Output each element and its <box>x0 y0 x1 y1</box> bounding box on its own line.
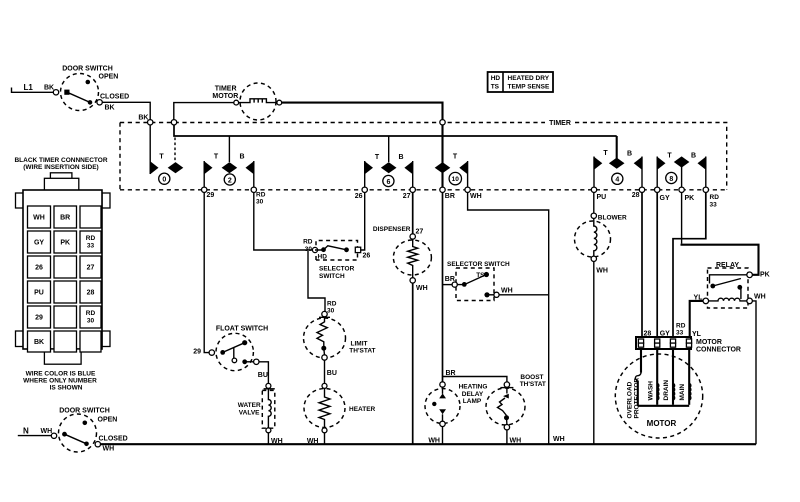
svg-text:PK: PK <box>685 195 695 202</box>
note wire color is blue <box>23 371 97 392</box>
svg-text:SWITCH: SWITCH <box>319 273 345 280</box>
motor connector <box>636 337 741 354</box>
wire 28 from timer to motor connector <box>641 193 643 338</box>
svg-text:N: N <box>23 427 29 436</box>
terminal 26 <box>355 187 368 200</box>
svg-text:BR: BR <box>446 370 456 377</box>
wire YL relay to motor connector <box>690 301 703 337</box>
terminal 27 <box>403 187 416 200</box>
motor drain winding <box>663 349 675 405</box>
svg-text:29: 29 <box>193 349 201 356</box>
legend box HD/TS <box>488 72 553 92</box>
svg-text:YL: YL <box>692 331 702 338</box>
svg-text:6: 6 <box>386 179 390 186</box>
connector cell RD 30 <box>80 306 101 328</box>
wire lamp to neutral bus <box>442 427 444 445</box>
svg-text:BLOWER: BLOWER <box>598 215 627 222</box>
wire boost thermostat to neutral bus <box>506 430 508 444</box>
motor wash winding <box>647 349 659 405</box>
svg-text:WH: WH <box>553 436 565 443</box>
limit thermostat <box>304 311 376 360</box>
wire PK from timer to relay <box>681 193 683 244</box>
svg-text:WH: WH <box>596 268 608 275</box>
terminal PU <box>591 187 606 201</box>
connector cell 27 <box>80 256 101 278</box>
label RD 33 (motor connector) <box>676 323 686 337</box>
relay <box>703 262 752 308</box>
connector cell 29 <box>28 306 51 328</box>
svg-text:TIMER: TIMER <box>549 120 571 127</box>
svg-text:TS: TS <box>491 84 500 91</box>
connector cell r4c2 <box>54 281 77 303</box>
wire RD30 from timer to selector switch <box>254 193 313 251</box>
timer cam switch 0 <box>150 125 183 184</box>
svg-text:27: 27 <box>403 193 411 200</box>
connector cell r1c3 <box>80 206 101 228</box>
wire PU from timer to blower <box>593 193 595 214</box>
timer box (dashed outline) <box>120 123 727 190</box>
svg-text:BR: BR <box>60 215 70 222</box>
wire 29 from timer to float switch <box>204 193 209 353</box>
black timer connector (wire insertion side) <box>14 157 110 364</box>
water valve solenoid <box>238 383 275 432</box>
wire timer motor to cam switch 10 feed <box>282 103 443 136</box>
svg-text:29: 29 <box>207 192 215 199</box>
svg-text:TEMP SENSE: TEMP SENSE <box>508 84 550 91</box>
svg-text:30: 30 <box>87 318 95 325</box>
svg-text:B: B <box>691 153 696 160</box>
svg-text:33: 33 <box>676 330 684 337</box>
wire BR bus from timer <box>442 193 444 383</box>
terminal PK <box>679 187 694 202</box>
wire timer terminal to timer motor <box>174 103 234 121</box>
svg-text:DISPENSER: DISPENSER <box>373 226 411 233</box>
wire 26 from timer to selector <box>361 193 365 251</box>
svg-text:RD: RD <box>86 235 96 242</box>
wire dispenser to neutral bus <box>412 283 414 444</box>
svg-text:8: 8 <box>669 176 673 183</box>
svg-text:29: 29 <box>35 315 43 322</box>
svg-text:OPEN: OPEN <box>99 74 119 81</box>
svg-text:RD: RD <box>303 239 313 246</box>
svg-text:MOTOR: MOTOR <box>647 419 677 428</box>
svg-text:GY: GY <box>34 240 44 247</box>
svg-text:DELAY: DELAY <box>462 391 484 398</box>
svg-text:33: 33 <box>710 202 718 209</box>
wire WH from timer to neutral bus <box>468 193 549 445</box>
svg-text:DRAIN: DRAIN <box>663 380 670 401</box>
connector cell r6c3 <box>80 331 101 352</box>
terminal 29 <box>202 187 215 199</box>
svg-text:T: T <box>603 150 608 157</box>
svg-text:BR: BR <box>445 193 455 200</box>
wire RD33 from timer to motor connector <box>673 193 706 338</box>
connector cell RD 33 <box>80 231 101 253</box>
connector cell PU <box>28 281 51 303</box>
svg-text:RD: RD <box>710 194 720 201</box>
svg-text:30: 30 <box>327 308 335 315</box>
svg-text:26: 26 <box>35 265 43 272</box>
label RD 30 (limit thermostat) <box>327 301 337 315</box>
svg-text:T: T <box>214 154 219 161</box>
svg-text:BU: BU <box>327 370 337 377</box>
svg-text:HEATING: HEATING <box>459 384 488 391</box>
terminal 28 <box>632 187 645 199</box>
svg-text:BOOST: BOOST <box>520 374 543 381</box>
blower <box>575 213 627 261</box>
svg-text:TH'STAT: TH'STAT <box>520 381 546 388</box>
svg-text:WH: WH <box>470 193 482 200</box>
svg-text:PU: PU <box>597 194 607 201</box>
svg-text:FLOAT SWITCH: FLOAT SWITCH <box>216 326 268 333</box>
svg-text:BK: BK <box>105 105 115 112</box>
timer cam switch 8 <box>657 153 706 190</box>
svg-text:GY: GY <box>660 195 670 202</box>
wire BR junction to boost thermostat <box>443 377 507 383</box>
svg-text:WH: WH <box>754 294 766 301</box>
wire GY from timer to motor connector <box>656 193 658 338</box>
connector cell r5c2 <box>54 306 77 328</box>
svg-text:PROTECTOR: PROTECTOR <box>633 378 640 419</box>
heating delay lamp <box>425 382 487 427</box>
node N <box>18 427 51 436</box>
selector switch (HD contact) <box>312 241 360 281</box>
connector cell WH <box>28 206 51 228</box>
svg-text:SELECTOR: SELECTOR <box>319 266 355 273</box>
float switch FS <box>209 326 268 371</box>
svg-text:L1: L1 <box>24 83 34 92</box>
connector cell r3c2 <box>54 256 77 278</box>
neutral bus wire <box>101 443 757 445</box>
wire heater to neutral bus <box>324 433 326 444</box>
svg-text:CLOSED: CLOSED <box>100 94 129 101</box>
timer cam switch 4 <box>594 136 642 190</box>
svg-text:TH'STAT: TH'STAT <box>349 348 375 355</box>
svg-text:BK: BK <box>44 85 54 92</box>
svg-text:BLACK TIMER CONNNECTOR: BLACK TIMER CONNNECTOR <box>14 157 107 164</box>
wire 27 from timer to dispenser <box>412 193 414 235</box>
svg-text:BK: BK <box>34 339 44 346</box>
svg-text:HD: HD <box>491 75 501 82</box>
wire selector TS to WH neutral drop <box>499 294 549 296</box>
svg-text:RD: RD <box>86 310 96 317</box>
wire blower to neutral bus <box>593 262 595 445</box>
svg-text:WH: WH <box>416 285 428 292</box>
svg-text:(WIRE INSERTION SIDE): (WIRE INSERTION SIDE) <box>23 164 98 171</box>
terminal WH <box>465 187 482 200</box>
svg-text:27: 27 <box>87 265 95 272</box>
svg-text:TS: TS <box>476 272 485 279</box>
connector cell 28 <box>80 281 101 303</box>
svg-text:TIMER: TIMER <box>215 86 237 93</box>
svg-text:B: B <box>398 154 403 161</box>
svg-text:OPEN: OPEN <box>98 417 118 424</box>
svg-text:28: 28 <box>632 192 640 199</box>
heater <box>304 383 376 432</box>
connector cell BR <box>54 206 77 228</box>
wire BK from door switch to timer terminal <box>102 102 150 121</box>
terminal timer-motor on timer top edge <box>171 120 176 125</box>
svg-text:LAMP: LAMP <box>463 398 482 405</box>
node L1 <box>12 83 54 93</box>
timer motor TM <box>212 83 281 120</box>
connector cell BK <box>28 331 51 352</box>
svg-text:RD: RD <box>676 323 686 330</box>
svg-text:26: 26 <box>355 193 363 200</box>
svg-text:WIRE COLOR IS BLUE: WIRE COLOR IS BLUE <box>26 371 96 378</box>
motor <box>615 354 702 438</box>
svg-text:BK: BK <box>138 115 148 122</box>
terminal BK on timer top edge <box>148 120 153 125</box>
svg-text:HD: HD <box>318 254 328 261</box>
svg-text:WH: WH <box>103 446 115 453</box>
svg-text:T: T <box>667 153 672 160</box>
svg-text:RD: RD <box>327 301 337 308</box>
svg-text:WATER: WATER <box>238 402 261 409</box>
svg-text:PU: PU <box>34 290 44 297</box>
dispenser <box>393 234 431 283</box>
label RD 30 (selector) <box>303 239 313 254</box>
svg-text:2: 2 <box>228 177 232 184</box>
svg-text:WH: WH <box>41 428 53 435</box>
wire WH relay to neutral bus <box>752 301 756 444</box>
svg-text:DOOR SWITCH: DOOR SWITCH <box>62 66 113 73</box>
wire BR stub to selector TS <box>443 284 453 286</box>
boost thermostat <box>486 374 546 430</box>
svg-text:RELAY: RELAY <box>716 262 739 269</box>
svg-text:SELECTOR SWITCH: SELECTOR SWITCH <box>447 261 510 268</box>
svg-text:0: 0 <box>162 177 166 184</box>
svg-text:10: 10 <box>452 176 460 183</box>
connector cell PK <box>54 231 77 253</box>
wire water valve to neutral bus <box>267 433 269 444</box>
svg-text:T: T <box>159 154 164 161</box>
connector cell r6c2 <box>54 331 77 352</box>
svg-text:WH: WH <box>501 287 513 294</box>
svg-text:IS SHOWN: IS SHOWN <box>50 385 83 392</box>
svg-text:28: 28 <box>87 290 95 297</box>
svg-text:LIMIT: LIMIT <box>351 341 368 348</box>
svg-text:BU: BU <box>258 372 268 379</box>
motor overload protector <box>626 349 641 419</box>
terminal GY <box>655 187 670 202</box>
svg-text:WHERE ONLY NUMBER: WHERE ONLY NUMBER <box>23 378 97 385</box>
door switch DS2 (lower, neutral side) <box>51 408 127 453</box>
connector cell 26 <box>28 256 51 278</box>
svg-text:CLOSED: CLOSED <box>99 436 128 443</box>
svg-text:MAIN: MAIN <box>679 384 686 401</box>
terminal BR <box>440 187 455 200</box>
svg-text:33: 33 <box>87 243 95 250</box>
timer cam switch 2 <box>204 136 254 190</box>
svg-text:4: 4 <box>615 177 619 184</box>
svg-text:WASH: WASH <box>647 381 654 401</box>
svg-text:26: 26 <box>363 253 371 260</box>
svg-text:VALVE: VALVE <box>239 410 260 417</box>
timer common bus <box>174 125 617 136</box>
svg-text:OVERLOAD: OVERLOAD <box>626 381 633 418</box>
svg-text:T: T <box>375 154 380 161</box>
svg-text:CONNECTOR: CONNECTOR <box>696 347 741 354</box>
wire selector junction to limit thermostat <box>308 251 325 312</box>
svg-text:HEATED DRY: HEATED DRY <box>508 75 550 82</box>
motor main winding <box>679 349 691 405</box>
svg-text:MOTOR: MOTOR <box>696 339 722 346</box>
svg-text:DOOR SWITCH: DOOR SWITCH <box>59 408 110 415</box>
door switch DS1 (upper, line side) <box>53 66 129 112</box>
svg-text:30: 30 <box>256 199 264 206</box>
svg-text:27: 27 <box>416 229 424 236</box>
wire PK heavy run to relay contact <box>681 245 759 275</box>
connector cell GY <box>28 231 51 253</box>
motor common bus <box>638 405 689 407</box>
wire limit thermostat to heater <box>324 360 326 383</box>
wire float switch to water valve <box>259 362 268 383</box>
timer cam switch 6 <box>365 136 413 190</box>
timer cam switch 10 <box>435 136 468 190</box>
svg-text:PK: PK <box>60 240 70 247</box>
terminal on timer top edge at cam 10 drop <box>440 120 445 125</box>
terminal RD 33 <box>703 187 719 208</box>
svg-text:B: B <box>627 151 632 158</box>
svg-text:T: T <box>453 154 458 161</box>
svg-text:WH: WH <box>33 215 45 222</box>
svg-text:HEATER: HEATER <box>349 406 376 413</box>
svg-text:PK: PK <box>760 272 770 279</box>
svg-text:MOTOR: MOTOR <box>212 93 238 100</box>
selector switch (TS contact) <box>447 261 510 301</box>
terminal RD 30 <box>251 187 266 205</box>
svg-text:B: B <box>239 154 244 161</box>
svg-text:RD: RD <box>256 192 266 199</box>
